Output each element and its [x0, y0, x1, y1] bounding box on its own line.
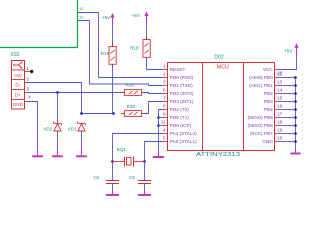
ground for C6 — [112, 184, 114, 191]
svg-text:3: 3 — [163, 80, 166, 85]
svg-text:9: 9 — [163, 112, 166, 117]
MCU right pin 10 GND — [275, 141, 281, 143]
wire VD2 branch down — [57, 93, 59, 124]
junction bus row 12 — [294, 76, 297, 79]
MCU right pin 13 (AIN1) PB1 — [275, 85, 281, 87]
MCU right pin 18 (MISO) PB6 — [275, 125, 281, 127]
wire PD5 stub to tie — [159, 117, 163, 119]
junction bus row 17 — [294, 116, 297, 119]
wire D+ net: XS5 pin3 to R20 — [28, 92, 125, 94]
svg-text:PD2 (INT0): PD2 (INT0) — [170, 91, 194, 96]
svg-text:14: 14 — [277, 88, 283, 93]
wire MCU pin 17 to bus — [281, 117, 296, 119]
MCU right pin 14 PB2 — [275, 93, 281, 95]
svg-text:+5V: +5V — [131, 13, 140, 18]
svg-text:12: 12 — [79, 14, 84, 19]
svg-text:D-: D- — [15, 83, 20, 88]
MCU left pin 9 PD5 (T1) — [162, 117, 168, 119]
svg-text:17: 17 — [277, 112, 283, 117]
wire MCU pin 18 to bus — [281, 125, 296, 127]
wire MCU pin 12 to bus — [281, 77, 296, 79]
MCU left pin 11 PD6 (ICP) — [162, 125, 168, 127]
wire net 11 to PD0 — [78, 13, 162, 78]
svg-text:PD5 (T1): PD5 (T1) — [170, 115, 189, 120]
ground for PD4-PD6 tie — [158, 150, 160, 157]
svg-text:R30: R30 — [127, 104, 136, 109]
wire PB port bus — [295, 78, 297, 150]
svg-text:5: 5 — [163, 136, 166, 141]
svg-text:+5V: +5V — [102, 15, 111, 20]
MCU right pin 15 PB3 — [275, 101, 281, 103]
svg-text:XS5: XS5 — [10, 52, 20, 58]
svg-text:PB4: PB4 — [264, 107, 273, 112]
wire PD4-PD6 tie to ground — [159, 110, 163, 151]
junction bus row 10 — [294, 140, 297, 143]
wire PA0 XTAL1 to crystal right — [145, 142, 163, 162]
svg-text:4: 4 — [28, 94, 31, 99]
svg-text:11: 11 — [161, 120, 166, 125]
svg-text:+5V: +5V — [14, 73, 23, 78]
svg-text:4: 4 — [163, 128, 166, 133]
svg-text:1: 1 — [27, 66, 30, 71]
svg-text:R18: R18 — [130, 45, 139, 50]
svg-text:R15: R15 — [101, 51, 110, 56]
svg-text:RESET: RESET — [170, 67, 186, 72]
MCU right pin 12 (AIN0) PB0 — [275, 77, 281, 79]
MCU left pin 6 PD2 (INT0) — [162, 93, 168, 95]
MCU right pin 19 (SCK) PB7 — [275, 133, 281, 135]
MCU right pin 20 VCC — [275, 69, 281, 71]
svg-text:PB3: PB3 — [264, 99, 273, 104]
svg-text:18: 18 — [277, 120, 283, 125]
junction bus row 16 — [294, 108, 297, 111]
USB icon in XS5 — [14, 64, 18, 66]
svg-text:D02: D02 — [214, 54, 224, 60]
wire MCU pin 16 to bus — [281, 109, 296, 111]
svg-text:(AIN0) PB0: (AIN0) PB0 — [249, 75, 273, 80]
MCU left pin 3 PD1 (TXD) — [162, 85, 168, 87]
junction bus row 18 — [294, 124, 297, 127]
MCU left pin 1 RESET — [162, 69, 168, 71]
wire PD6 stub to tie — [159, 125, 163, 127]
MCU right pin 16 PB4 — [275, 109, 281, 111]
junction bus row 15 — [294, 100, 297, 103]
svg-text:PD4 (T0): PD4 (T0) — [170, 107, 189, 112]
svg-text:GND: GND — [13, 102, 24, 107]
svg-text:PD3 (INT1): PD3 (INT1) — [170, 99, 194, 104]
svg-text:8: 8 — [163, 104, 166, 109]
junction PD5 — [157, 116, 160, 119]
svg-text:11: 11 — [79, 6, 84, 11]
wire R18 bottom to RESET pin 1 — [147, 57, 163, 69]
wire R15 bottom to D- node — [112, 64, 114, 113]
svg-text:(SCK) PB7: (SCK) PB7 — [250, 131, 273, 136]
svg-text:R20: R20 — [126, 83, 135, 88]
wire D- net: XS5 pin2 to VD1 and R30 — [28, 83, 114, 114]
wire MCU pin 13 to bus — [281, 85, 296, 87]
MCU left pin 8 PD4 (T0) — [162, 109, 168, 111]
ground for MCU GND/bus — [295, 149, 297, 154]
svg-text:7: 7 — [163, 96, 166, 101]
svg-text:1: 1 — [163, 64, 166, 69]
wire R30 right to PD3 pin 7 — [142, 102, 163, 114]
svg-text:D+: D+ — [15, 92, 21, 97]
wire XS5 GND to ground — [28, 102, 38, 149]
XS5 pin 3 stub (D+) — [25, 92, 29, 94]
svg-text:PB2: PB2 — [264, 91, 273, 96]
op-amp — MCU D02 ATtiny2313 body — [168, 63, 275, 151]
junction PD6 — [157, 124, 160, 127]
svg-text:ATTINY2313: ATTINY2313 — [196, 152, 240, 158]
svg-text:GND: GND — [262, 139, 273, 144]
wire PA1 XTAL2 to crystal left — [113, 134, 163, 162]
svg-text:PD1 (TXD): PD1 (TXD) — [170, 83, 193, 88]
ground for XS5 GND — [37, 149, 39, 157]
XS5 pin 1 stub (+5V) with no-connect dot — [25, 71, 31, 73]
svg-text:PA0 (XTAL1): PA0 (XTAL1) — [170, 139, 197, 144]
junction bus row 14 — [294, 92, 297, 95]
ground for VD1 — [81, 149, 83, 157]
svg-text:PD0 (RXD): PD0 (RXD) — [170, 75, 194, 80]
wire MCU pin 15 to bus — [281, 101, 296, 103]
wire green sheet-border bus — [0, 0, 78, 48]
svg-text:MCU: MCU — [217, 65, 229, 71]
svg-text:2: 2 — [163, 72, 166, 77]
wire VCC pin 20 to +5V — [281, 55, 297, 70]
svg-text:6: 6 — [163, 88, 166, 93]
junction bus row 13 — [294, 84, 297, 87]
svg-text:16: 16 — [277, 104, 283, 109]
MCU left pin 5 PA0 (XTAL1) — [162, 141, 168, 143]
svg-text:12: 12 — [277, 72, 283, 77]
junction at R30 left / R15 bottom — [112, 112, 115, 115]
ground for VD2 — [57, 149, 59, 157]
junction at VD2 top — [56, 91, 59, 94]
svg-text:(MOSI) PB5: (MOSI) PB5 — [248, 115, 274, 120]
svg-text:VD2: VD2 — [43, 126, 52, 131]
wire R20 right to PD2 pin 6 — [142, 93, 163, 94]
svg-text:(MISO) PB6: (MISO) PB6 — [248, 123, 274, 128]
MCU left pin 2 PD0 (RXD) — [162, 77, 168, 79]
XS5 pin 2 stub (D-) — [25, 82, 29, 84]
junction bus row 19 — [294, 132, 297, 135]
svg-text:PA1 (XTAL2): PA1 (XTAL2) — [170, 131, 197, 136]
svg-text:19: 19 — [277, 128, 283, 133]
svg-text:PD6 (ICP): PD6 (ICP) — [170, 123, 192, 128]
svg-text:C9: C9 — [129, 175, 135, 180]
svg-text:(AIN1) PB1: (AIN1) PB1 — [249, 83, 273, 88]
wire MCU pin 14 to bus — [281, 93, 296, 95]
MCU left pin 7 PD3 (INT1) — [162, 101, 168, 103]
svg-text:10: 10 — [277, 136, 283, 141]
svg-text:+5V: +5V — [284, 48, 293, 53]
junction crystal left — [111, 160, 114, 163]
MCU right pin 17 (MOSI) PB5 — [275, 117, 281, 119]
svg-text:15: 15 — [277, 96, 283, 101]
svg-text:2: 2 — [27, 76, 30, 81]
svg-text:3: 3 — [27, 86, 30, 91]
ground for C9 — [144, 184, 146, 191]
wire net 12 to PD1 — [78, 21, 162, 86]
XS5 pin 4 stub (GND) — [25, 101, 29, 103]
svg-text:VD1: VD1 — [68, 126, 77, 131]
wire MCU pin 19 to bus — [281, 133, 296, 135]
junction at VD1 top — [80, 112, 83, 115]
svg-text:BQ1: BQ1 — [117, 147, 127, 152]
junction crystal right — [143, 160, 146, 163]
MCU left pin 4 PA1 (XTAL2) — [162, 133, 168, 135]
svg-text:13: 13 — [277, 80, 283, 85]
svg-text:VCC: VCC — [263, 67, 274, 72]
wire MCU pin 10 to bus — [281, 141, 296, 143]
svg-text:C6: C6 — [93, 175, 99, 180]
